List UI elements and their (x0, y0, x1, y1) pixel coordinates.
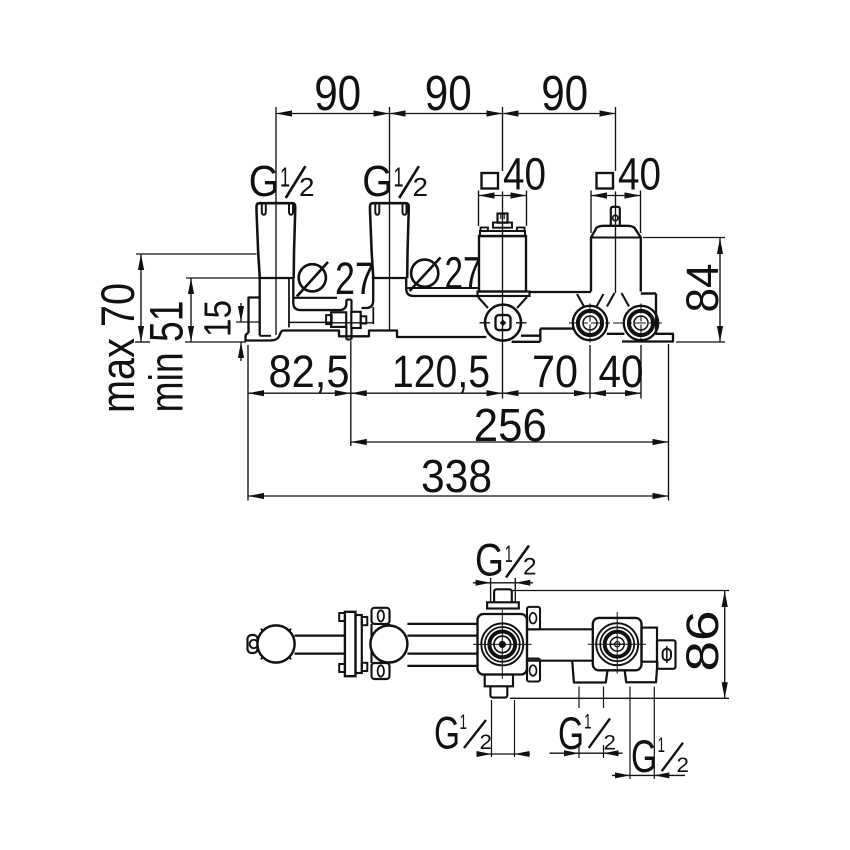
svg-text:90: 90 (314, 67, 361, 121)
svg-text:G: G (362, 158, 393, 206)
svg-text:82,5: 82,5 (269, 346, 350, 397)
svg-text:40: 40 (599, 346, 644, 397)
svg-text:40: 40 (503, 149, 546, 200)
svg-text:338: 338 (421, 450, 492, 502)
svg-text:1: 1 (584, 711, 592, 734)
svg-text:G: G (558, 708, 584, 759)
svg-text:G: G (434, 708, 460, 759)
svg-text:86: 86 (677, 611, 728, 672)
svg-text:2: 2 (299, 172, 315, 202)
svg-text:40: 40 (618, 149, 661, 200)
svg-text:1: 1 (505, 541, 513, 568)
svg-text:15: 15 (198, 300, 240, 337)
svg-text:1: 1 (394, 162, 404, 193)
svg-text:1: 1 (658, 734, 666, 757)
svg-text:70: 70 (532, 346, 578, 397)
svg-text:max 70: max 70 (91, 283, 144, 413)
svg-text:1: 1 (460, 711, 468, 734)
svg-text:90: 90 (425, 67, 472, 121)
svg-text:G: G (631, 731, 657, 782)
svg-text:2: 2 (523, 554, 537, 581)
svg-text:G: G (475, 534, 504, 585)
svg-text:2: 2 (677, 754, 690, 777)
svg-text:1: 1 (280, 162, 290, 193)
svg-text:27: 27 (445, 247, 482, 298)
svg-text:27: 27 (335, 253, 375, 304)
svg-text:256: 256 (474, 399, 547, 451)
svg-text:2: 2 (480, 731, 493, 754)
svg-text:90: 90 (541, 67, 588, 121)
svg-text:2: 2 (413, 172, 429, 202)
svg-text:G: G (249, 158, 279, 206)
svg-text:84: 84 (677, 264, 728, 313)
svg-text:120,5: 120,5 (392, 346, 490, 397)
svg-text:2: 2 (604, 731, 617, 754)
svg-text:min 51: min 51 (140, 301, 193, 413)
